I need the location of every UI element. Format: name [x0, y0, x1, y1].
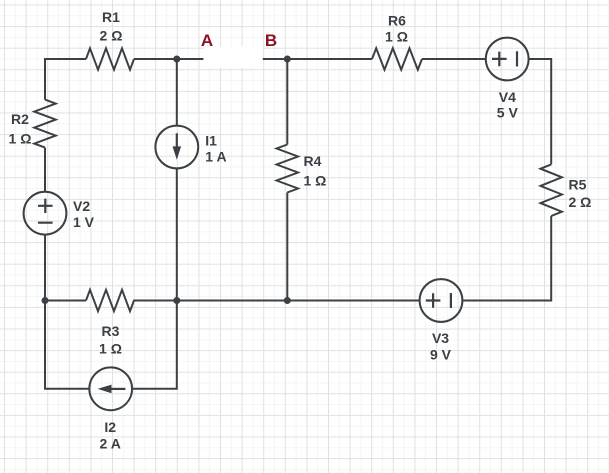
svg-text:V3: V3: [432, 330, 449, 346]
svg-text:2 Ω: 2 Ω: [100, 28, 123, 44]
svg-text:R6: R6: [388, 12, 406, 28]
svg-text:A: A: [201, 31, 213, 50]
svg-text:1 Ω: 1 Ω: [9, 131, 32, 147]
svg-text:I2: I2: [104, 419, 116, 435]
svg-text:R1: R1: [102, 9, 120, 25]
svg-text:1 Ω: 1 Ω: [99, 341, 122, 357]
svg-text:1 A: 1 A: [205, 149, 226, 165]
svg-text:2 A: 2 A: [100, 436, 121, 452]
svg-text:9 V: 9 V: [430, 347, 452, 363]
svg-text:B: B: [265, 31, 277, 50]
svg-text:R5: R5: [569, 176, 587, 192]
svg-text:I1: I1: [205, 133, 217, 149]
svg-text:2 Ω: 2 Ω: [569, 194, 592, 210]
svg-text:V4: V4: [499, 89, 516, 105]
svg-text:R2: R2: [11, 111, 29, 127]
svg-text:1 Ω: 1 Ω: [304, 172, 327, 188]
svg-text:R4: R4: [304, 153, 322, 169]
svg-text:1 Ω: 1 Ω: [385, 28, 408, 44]
svg-text:V2: V2: [73, 198, 90, 214]
svg-text:5 V: 5 V: [497, 105, 519, 121]
svg-text:1 V: 1 V: [73, 214, 95, 230]
svg-text:R3: R3: [102, 323, 120, 339]
